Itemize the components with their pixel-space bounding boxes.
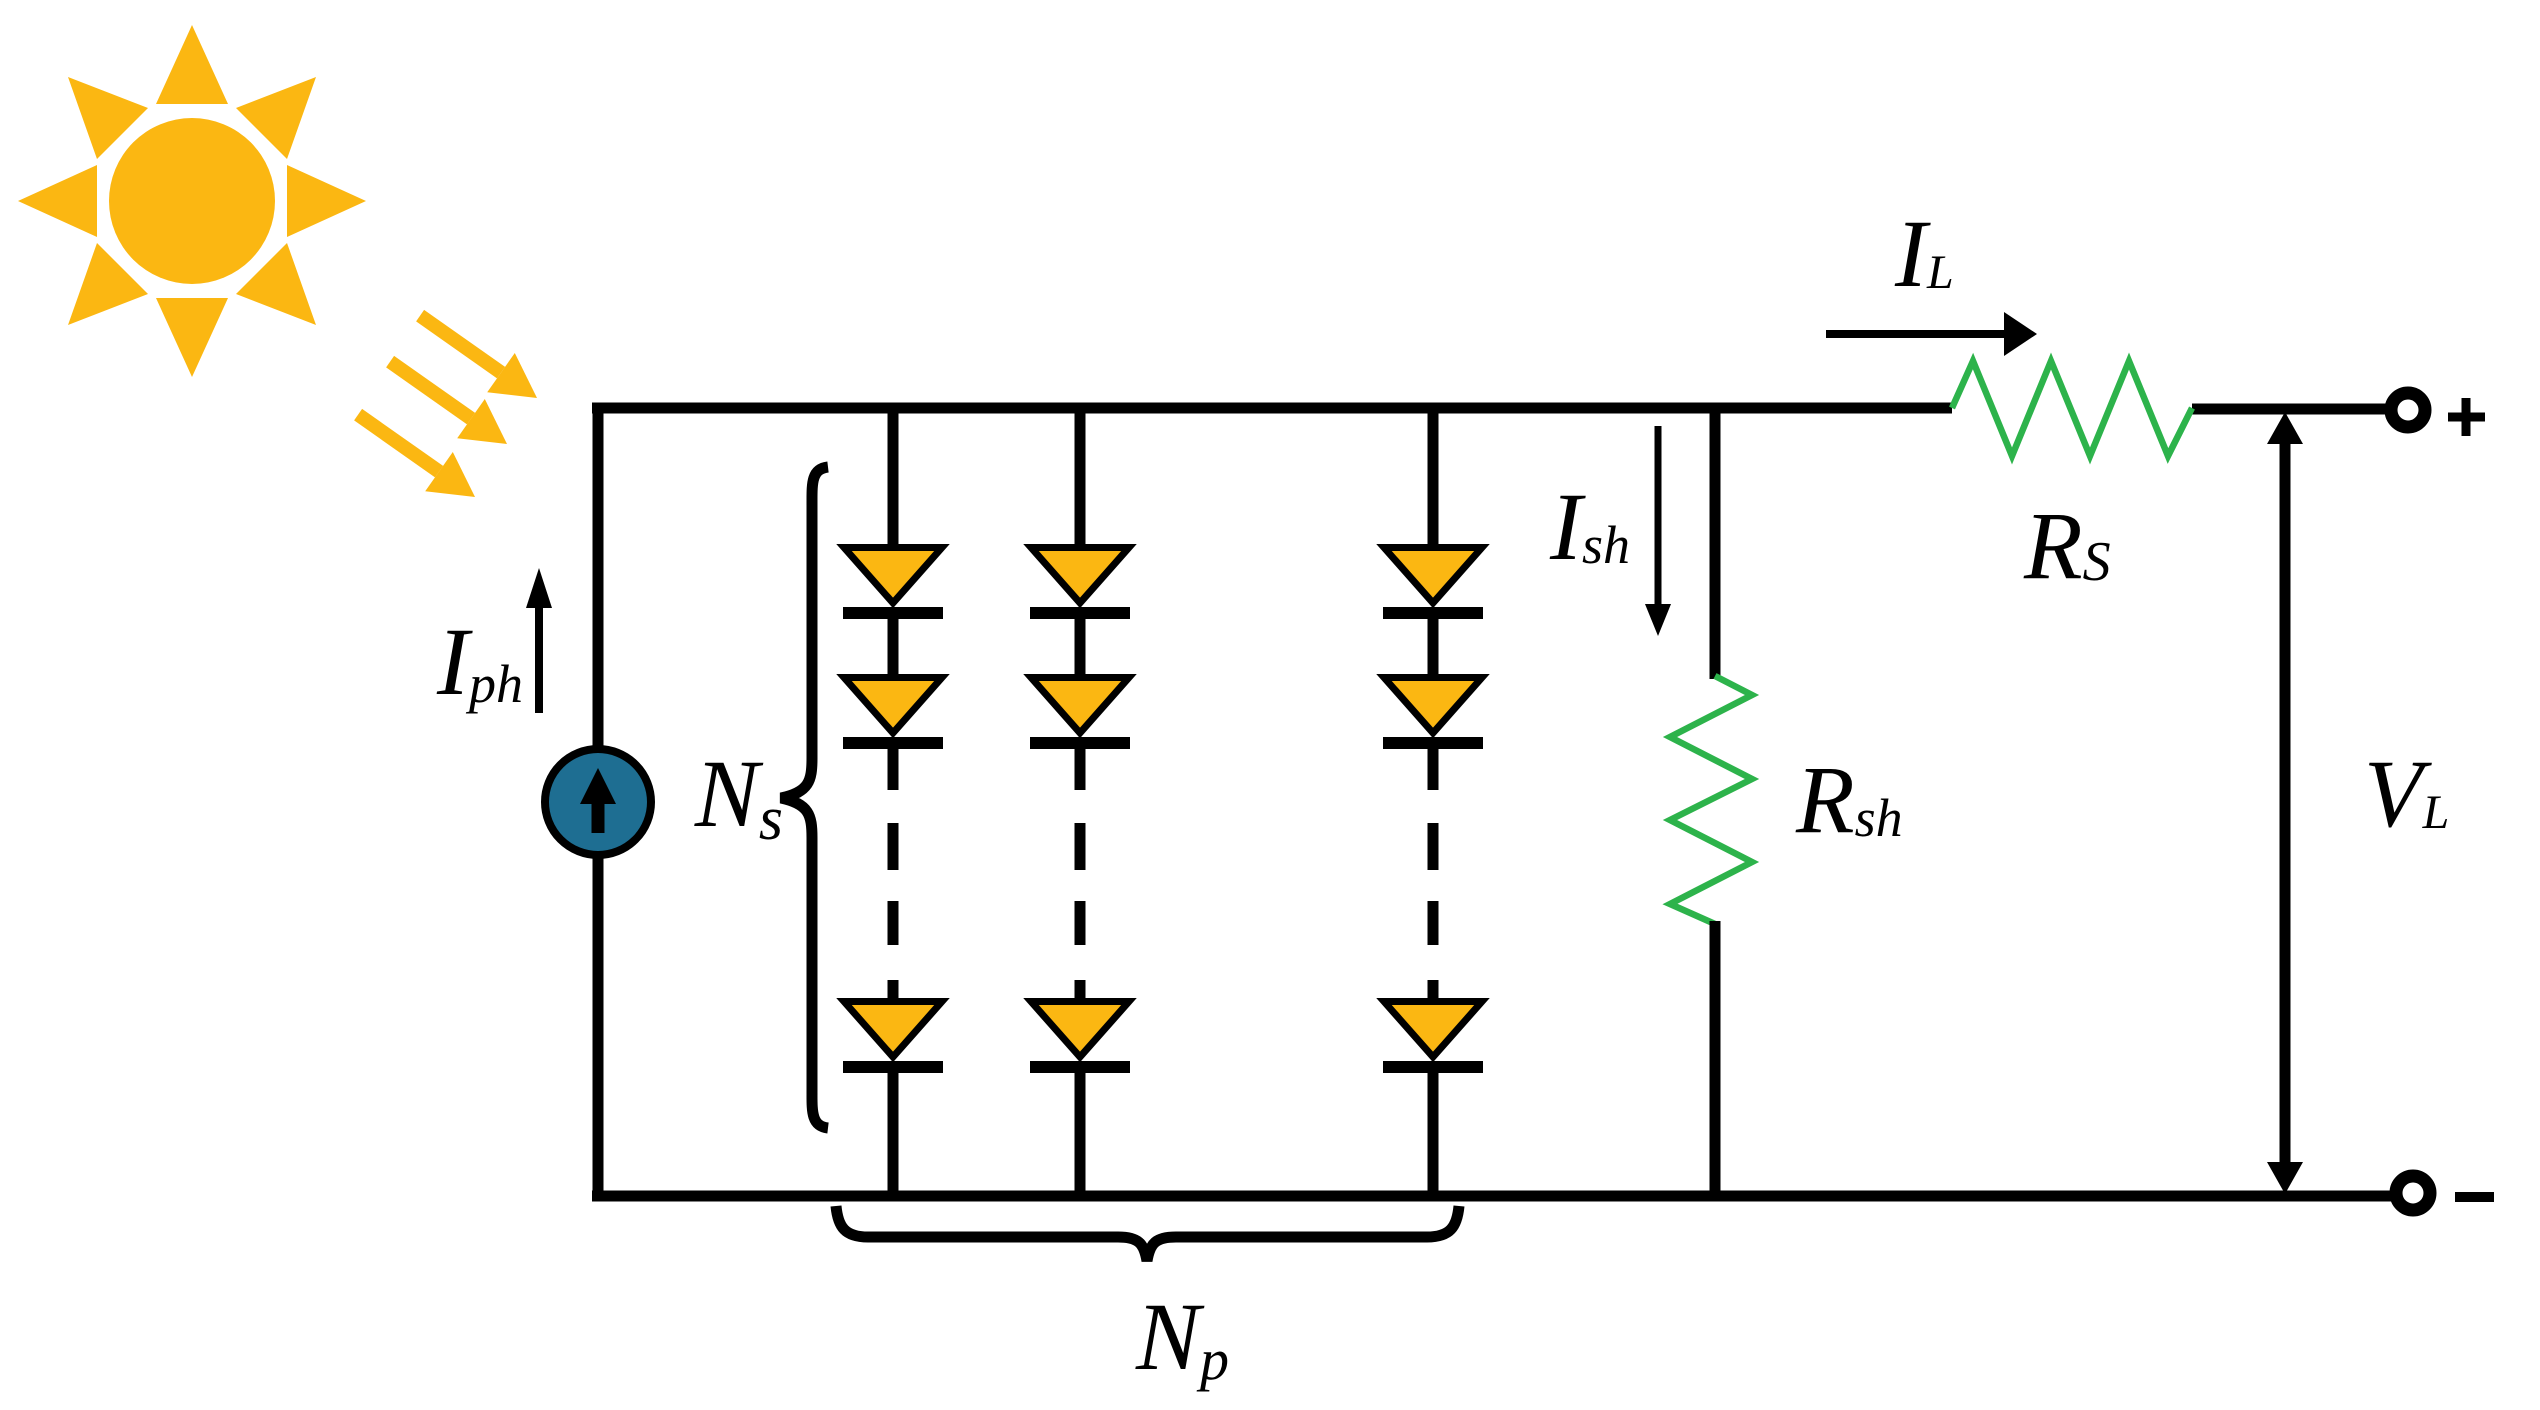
svg-text:VL: VL xyxy=(2364,740,2449,847)
svg-text:Np: Np xyxy=(1135,1283,1229,1392)
svg-text:IL: IL xyxy=(1894,200,1954,307)
minus sign xyxy=(2455,1192,2494,1202)
sun ray arrow 1 xyxy=(416,310,537,398)
VL double arrow xyxy=(2280,438,2291,1168)
wire: left vertical xyxy=(593,403,604,1201)
brace Ns xyxy=(781,467,828,1128)
diode D3a xyxy=(1383,548,1483,620)
svg-text:RS: RS xyxy=(2023,492,2111,599)
diode column 2 (x=1080) xyxy=(1030,403,1130,1196)
wire xyxy=(1428,1073,1439,1196)
wire stub xyxy=(1428,749,1439,790)
wire xyxy=(1075,403,1086,547)
wire: bottom bus xyxy=(592,1191,2392,1202)
current source Iph xyxy=(545,749,651,855)
diode D2b xyxy=(1030,678,1130,750)
wire xyxy=(1075,619,1086,677)
wire xyxy=(888,619,899,677)
diode D2n xyxy=(1030,1002,1130,1074)
svg-text:Ish: Ish xyxy=(1549,473,1630,580)
svg-text:Iph: Iph xyxy=(436,608,523,715)
sun ray arrow 3 xyxy=(354,409,475,497)
dashed continuation xyxy=(1428,823,1439,945)
resistor Rsh xyxy=(1670,676,1752,924)
svg-text:Ns: Ns xyxy=(694,740,783,853)
diode column 3 (x=1433) xyxy=(1383,403,1483,1196)
wire xyxy=(1428,619,1439,677)
diode D3n xyxy=(1383,1002,1483,1074)
wire stub xyxy=(1075,749,1086,790)
wire xyxy=(1428,403,1439,547)
IL arrow xyxy=(1826,330,2007,338)
plus sign xyxy=(2448,398,2485,436)
diode D1a xyxy=(843,548,943,620)
sun xyxy=(18,25,366,377)
diode D1n xyxy=(843,1002,943,1074)
sun ray arrow 2 xyxy=(386,356,507,444)
diode column 1 (x=893) xyxy=(843,403,943,1196)
Iph arrow xyxy=(535,602,543,713)
dashed continuation xyxy=(888,823,899,945)
svg-text:Rsh: Rsh xyxy=(1795,746,1903,853)
wire xyxy=(888,403,899,547)
wire: right top segment after Rs xyxy=(2192,404,2387,415)
terminal - node xyxy=(2396,1176,2430,1210)
shunt branch wire top xyxy=(1710,403,1721,679)
wire xyxy=(1075,1073,1086,1196)
wire stub xyxy=(888,749,899,790)
wire xyxy=(888,1073,899,1196)
diode D2a xyxy=(1030,548,1130,620)
diode D3b xyxy=(1383,678,1483,750)
resistor Rs xyxy=(1952,361,2192,456)
terminal + node xyxy=(2391,393,2425,427)
dashed continuation xyxy=(1075,823,1086,945)
wire: top bus xyxy=(592,403,1952,414)
brace Np xyxy=(836,1206,1459,1261)
shunt branch wire bottom xyxy=(1710,921,1721,1196)
Ish arrow xyxy=(1655,426,1662,608)
diode D1b xyxy=(843,678,943,750)
